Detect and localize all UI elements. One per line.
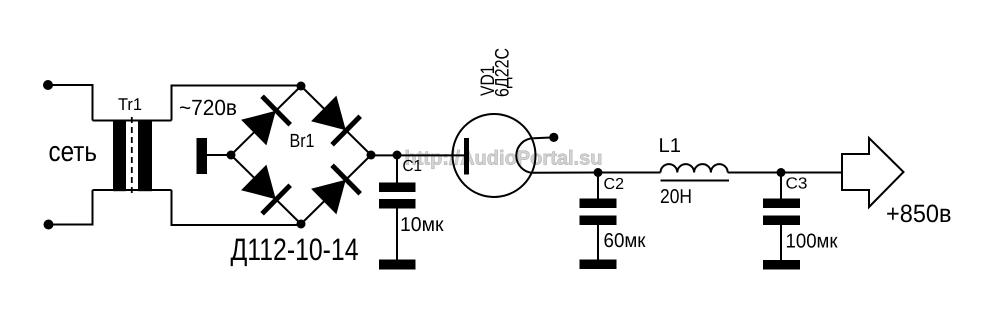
capacitor C1 plate 2 [379, 199, 416, 209]
svg-text:60мк: 60мк [604, 230, 646, 252]
inductor L1 core line [661, 180, 730, 182]
tube VD1 filament wire [534, 136, 554, 139]
svg-text:10мк: 10мк [400, 214, 444, 236]
node C2 [594, 168, 603, 177]
node C1 [393, 151, 402, 160]
svg-text:L1: L1 [659, 135, 682, 157]
svg-text:+850в: +850в [886, 200, 952, 228]
diode D2 (top to right) [311, 96, 360, 145]
wire C2 lead bottom [597, 225, 599, 260]
C1 ground bar [379, 260, 416, 270]
svg-text:Д112-10-14: Д112-10-14 [231, 232, 359, 267]
capacitor C2 plate 1 [580, 199, 617, 209]
wire output rail to L1 [598, 172, 661, 174]
wire L1 to C3 node [728, 172, 781, 174]
wire C1 lead top [396, 155, 398, 184]
wire transformer top [93, 120, 172, 122]
node bridge right [367, 151, 376, 160]
capacitor C3 plate 2 [763, 216, 800, 226]
bridge side top-right wire [301, 86, 371, 155]
wire input top [48, 85, 93, 121]
bridge side left-top wire [231, 86, 301, 155]
svg-text:6Д22С: 6Д22С [492, 48, 514, 97]
wire secondary bottom to bridge [172, 190, 302, 225]
tube VD1 filament terminal [549, 133, 558, 142]
wire secondary top to bridge [172, 86, 302, 121]
transformer Tr1 secondary winding [138, 120, 152, 192]
wire bridge right to tube anode [371, 154, 464, 156]
svg-text:C3: C3 [786, 176, 808, 193]
svg-text:Tr1: Tr1 [118, 95, 142, 114]
terminal input top [43, 80, 53, 90]
node C3 [777, 168, 786, 177]
tube VD1 anode [464, 138, 469, 175]
C2 ground bar [580, 260, 617, 270]
wire input bottom [49, 190, 93, 225]
svg-text:сеть: сеть [49, 136, 98, 167]
capacitor C2 plate 2 [580, 216, 617, 226]
transformer Tr1 primary winding [113, 120, 126, 192]
inductor L1 coil [661, 164, 728, 172]
output arrow [842, 138, 904, 207]
tube VD1 envelope [453, 114, 536, 197]
svg-text:100мк: 100мк [786, 231, 838, 253]
svg-text:C2: C2 [604, 176, 625, 193]
capacitor C1 plate 1 [379, 183, 416, 193]
transformer Tr1 core [131, 117, 133, 194]
svg-text:C1: C1 [403, 158, 423, 175]
svg-text:20Н: 20Н [660, 186, 692, 208]
wire C3 node to arrow [781, 172, 842, 174]
bridge side bottom-right wire [301, 155, 371, 224]
wire C3 lead top [780, 173, 782, 200]
svg-text:Br1: Br1 [290, 131, 315, 152]
diode D3 (left to bottom) [241, 165, 290, 214]
wire bar to bridge left node [207, 154, 231, 156]
wire transformer bottom [93, 189, 172, 191]
bridge side left-bottom wire [231, 155, 301, 224]
wire C2 lead top [597, 173, 599, 200]
node bridge bottom [297, 220, 306, 229]
node bridge top [297, 82, 306, 91]
negative terminal bar [197, 138, 208, 174]
diode D4 (bottom to right) [311, 165, 360, 214]
wire tube cathode to output rail [534, 172, 598, 174]
capacitor C3 plate 1 [763, 199, 800, 209]
terminal input bottom [44, 220, 54, 230]
wire C1 lead bottom [396, 209, 398, 261]
svg-text:~720в: ~720в [179, 95, 237, 120]
diode D1 (left to top) [241, 96, 290, 145]
wire C3 lead bottom [780, 225, 782, 260]
C3 ground bar [763, 260, 800, 270]
svg-text:http://AudioPortal.su: http://AudioPortal.su [405, 148, 603, 170]
node bridge left [227, 151, 236, 160]
tube VD1 cathode arc [516, 138, 533, 173]
